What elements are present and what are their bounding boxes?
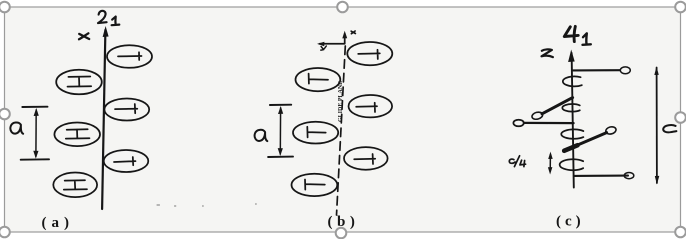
svg-text:(a): (a) — [42, 215, 75, 231]
lollipop diagonal upper-left — [542, 98, 573, 114]
label y (b) — [321, 46, 327, 50]
glide plane dashed line — [337, 46, 346, 215]
axis line 4_1 — [572, 53, 574, 188]
motif ellipse left 3 — [53, 173, 97, 198]
tack symbol b-left 2 — [307, 127, 325, 138]
diagonal lower-right thick root — [564, 145, 577, 151]
lollipop left horizontal — [524, 122, 574, 124]
lollipop top horizontal — [573, 69, 620, 71]
motif ellipse b-left 1 — [296, 68, 341, 91]
label c — [663, 125, 676, 132]
lollipop diagonal lower-right — [564, 133, 606, 151]
label subscript 1 of 2_1 — [112, 17, 120, 26]
motif ellipse left 1 — [56, 70, 102, 95]
rotation arc 4 — [560, 159, 584, 170]
tack symbol b-right 3 — [354, 154, 375, 164]
selection handle bottom-left — [0, 227, 10, 238]
dimension a arrow line (b) — [279, 108, 281, 154]
label 2 — [98, 11, 107, 23]
label z — [542, 49, 553, 57]
axis line 2_1 — [102, 30, 105, 209]
dimension a arrowheads (b) — [278, 106, 283, 114]
motif ellipse b-left 3 — [292, 174, 338, 196]
label 4 — [564, 26, 578, 41]
beam symbol left 1 — [68, 77, 92, 87]
tack symbol b-left 3 — [305, 180, 325, 190]
left horizontal end circle — [513, 120, 523, 127]
label c/4 — [509, 156, 525, 167]
tack symbol right 1 — [118, 52, 142, 60]
selection handle left-middle — [0, 109, 10, 120]
motif ellipse right 1 — [107, 45, 152, 68]
lollipop top end circle — [620, 67, 630, 74]
beam symbol left 2 — [66, 129, 90, 138]
selection handle top-left — [0, 2, 10, 13]
dimension a arrowheads (a) — [34, 108, 39, 116]
motif ellipse b-left 2 — [293, 122, 338, 144]
motif ellipse b-right 1 — [347, 42, 392, 65]
dimension c arrowheads — [654, 67, 659, 76]
diagonal upper-left end circle — [531, 111, 543, 120]
rotation arc 1 — [563, 76, 582, 86]
selection handle bottom-right — [675, 227, 686, 238]
axes icon corner — [320, 34, 345, 44]
tack symbol right 3 — [114, 157, 136, 165]
motif ellipse b-right 2 — [349, 95, 393, 117]
axis arrowhead (c) — [568, 50, 575, 63]
bottom horizontal end circle — [624, 173, 634, 179]
selection handle bottom-middle — [336, 228, 347, 239]
selection handle top-right — [675, 2, 686, 13]
motif ellipse b-right 3 — [344, 147, 388, 170]
svg-text:(c): (c) — [556, 214, 585, 230]
tack symbol b-right 1 — [358, 50, 380, 59]
rotation arc 3 — [561, 129, 583, 138]
tack symbol b-right 2 — [356, 103, 377, 112]
axes icon up arrowhead — [342, 31, 347, 39]
label x (b) — [351, 31, 355, 34]
selection handle top-middle — [337, 2, 348, 13]
beam symbol left 3 — [64, 180, 87, 189]
stray scan specks — [157, 204, 256, 206]
motif ellipse right 2 — [104, 99, 149, 121]
lollipop bottom horizontal — [574, 175, 628, 177]
label x — [79, 33, 89, 39]
motif ellipse right 3 — [104, 150, 149, 172]
selection handle right-middle — [675, 112, 686, 123]
c/4 double arrow — [549, 155, 551, 172]
dimension a arrow line (a) — [35, 110, 37, 157]
tack symbol b-left 1 — [309, 74, 328, 84]
rotation arc 2 — [562, 104, 579, 112]
axes icon left arrowhead — [317, 42, 324, 47]
dimension a ticks (b) — [268, 105, 293, 157]
label subscript 1 of 4_1 — [583, 33, 591, 44]
axis arrowhead — [103, 26, 109, 37]
dimension c line — [656, 68, 658, 184]
tack symbol right 2 — [115, 104, 137, 113]
dimension a ticks (a) — [21, 107, 49, 160]
diagonal lower-right end circle — [605, 126, 617, 135]
label a (b) — [255, 130, 268, 141]
label a (a) — [10, 122, 23, 133]
svg-text:GLIDE PLANE: GLIDE PLANE — [338, 81, 344, 122]
motif ellipse left 2 — [54, 123, 100, 147]
